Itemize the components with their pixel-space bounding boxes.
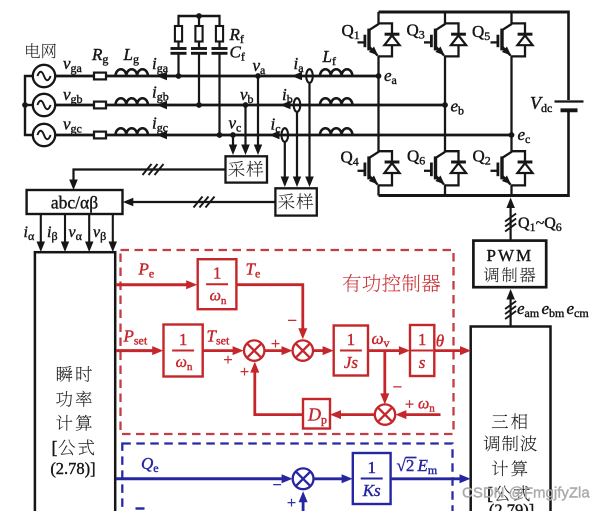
label T_set bbox=[207, 327, 230, 348]
label Q_e bbox=[141, 454, 159, 475]
svg-text:√2: √2 bbox=[397, 456, 415, 475]
resistor Rg (phase b) bbox=[94, 102, 106, 109]
current arrow i_gc bbox=[157, 131, 168, 139]
bus hatch on current signal bbox=[194, 197, 215, 208]
label e_a bbox=[384, 66, 398, 87]
current arrow i_c bbox=[269, 131, 280, 139]
summing junction 1 bbox=[244, 340, 264, 360]
current arrow i_ga bbox=[157, 72, 168, 80]
wire junction 4 to 1/Ks bbox=[314, 474, 353, 483]
capacitor Cf branch a bbox=[171, 49, 187, 77]
label Q2 bbox=[473, 147, 491, 168]
label sqrt2 E_m bbox=[397, 456, 438, 477]
svg-text:1: 1 bbox=[367, 458, 376, 477]
wire omega_n input bbox=[395, 410, 440, 419]
wire junction 4 feedback from below bbox=[299, 491, 308, 511]
transistor Q2 (IGBT) bbox=[491, 151, 533, 185]
block 1/s bbox=[410, 325, 434, 376]
label i_b bbox=[282, 85, 293, 106]
wire: leg a lower connections bbox=[377, 76, 379, 196]
svg-text:−: − bbox=[272, 477, 281, 494]
label Lg bbox=[123, 45, 139, 66]
wire: DC positive rail bbox=[379, 11, 569, 14]
node: filter branch b to phase bbox=[196, 102, 202, 108]
label omega_v bbox=[372, 329, 390, 350]
sign plus (T_set into junction 1) bbox=[223, 352, 232, 369]
resistor Rf branch c bbox=[216, 15, 223, 48]
svg-text:CSDN @FmgjfyZla: CSDN @FmgjfyZla bbox=[462, 485, 590, 502]
block: voltage sampler 采样 bbox=[226, 156, 268, 182]
bus hatch on gate signals bbox=[505, 214, 516, 232]
block: PWM modulator PWM调制器 bbox=[473, 241, 546, 288]
transistor Q1 (IGBT) bbox=[358, 23, 400, 56]
wire phase a bbox=[55, 75, 378, 78]
wire: v_beta output arrow bbox=[109, 214, 118, 252]
node e_a bbox=[376, 73, 382, 79]
wire theta output to modulation block bbox=[434, 346, 471, 355]
svg-text:1: 1 bbox=[213, 264, 222, 283]
wire: current sampler output to abc/alphabeta bbox=[123, 198, 276, 206]
svg-text:Ks: Ks bbox=[362, 481, 381, 500]
svg-text:−: − bbox=[393, 378, 403, 397]
block: three-phase modulation wave calculation 三相调制波计算 bbox=[471, 327, 551, 511]
block: instantaneous power calculation 瞬时功率计算 bbox=[35, 252, 115, 511]
node v_a and tap to sampler bbox=[254, 73, 262, 155]
inductor Lg (phase a) bbox=[116, 69, 148, 76]
inductor Lf (phase c) bbox=[320, 128, 352, 135]
sign minus (omega_v into junction 3) bbox=[393, 378, 403, 397]
label Q1 bbox=[342, 21, 360, 42]
node: filter branch a to phase bbox=[176, 73, 182, 79]
svg-text:(2.78)]: (2.78)] bbox=[50, 459, 95, 478]
label i_gb bbox=[152, 83, 169, 104]
wire: leg b lower connections bbox=[444, 105, 446, 196]
label v_c bbox=[229, 114, 242, 135]
wire D_p feedback to junction 1 bbox=[250, 362, 303, 415]
label Rg bbox=[91, 45, 108, 66]
battery Vdc plates bbox=[555, 102, 584, 111]
partial element below (cut off at bottom edge) bbox=[136, 507, 145, 509]
label Q4 bbox=[341, 148, 359, 169]
wire T_e to summing junction bbox=[236, 285, 307, 340]
label Cf bbox=[230, 43, 245, 64]
label i_c bbox=[271, 115, 281, 136]
resistor Rg (phase a) bbox=[94, 73, 106, 80]
wire: RC filter top bus bbox=[179, 15, 220, 17]
sign plus (junction1 to junction2) bbox=[271, 336, 280, 353]
wire T_set to summing junction 1 bbox=[203, 346, 244, 355]
wire P_e from power block bbox=[116, 280, 197, 289]
node: filter branch c to phase bbox=[217, 132, 223, 138]
wire: voltage sampler output to abc/alphabeta bbox=[69, 170, 225, 191]
bus hatch on voltage signal bbox=[143, 164, 164, 175]
label i_gc bbox=[152, 114, 168, 135]
current arrow i_b bbox=[280, 101, 291, 109]
transistor Q3 (IGBT) bbox=[424, 23, 466, 56]
label v_a bbox=[253, 56, 267, 77]
label v_gb bbox=[63, 85, 83, 106]
wire phase b bbox=[55, 104, 445, 107]
inductor Lg (phase b) bbox=[116, 98, 148, 105]
svg-text:θ: θ bbox=[436, 332, 444, 351]
AC source phase c (v_gc) bbox=[33, 124, 55, 146]
inductor Lg (phase c) bbox=[116, 128, 148, 135]
wire: left bus connecting AC sources bbox=[25, 76, 33, 135]
current arrow i_a bbox=[292, 72, 303, 80]
wire junction3 to D_p bbox=[330, 410, 375, 419]
block 1/omega_n (P_e to T_e) bbox=[198, 259, 237, 309]
wire: leg c upper connections bbox=[510, 12, 512, 135]
svg-text:1: 1 bbox=[347, 330, 356, 349]
dashed box: reactive power controller bbox=[122, 444, 452, 511]
block: current sampler 采样 bbox=[275, 188, 316, 215]
node e_c bbox=[509, 132, 515, 138]
svg-text:Q1~Q6: Q1~Q6 bbox=[518, 215, 562, 234]
wire: v_alpha output arrow bbox=[85, 214, 94, 252]
block D_p bbox=[303, 399, 330, 429]
label Q6 bbox=[407, 147, 425, 168]
label i_beta bbox=[47, 224, 58, 243]
transistor Q5 (IGBT) bbox=[491, 23, 533, 56]
block 1/Js bbox=[334, 326, 368, 376]
node e_b bbox=[442, 102, 448, 108]
wire: leg a upper connections bbox=[377, 12, 379, 76]
svg-text:−: − bbox=[287, 311, 297, 330]
summing junction 2 bbox=[293, 340, 313, 360]
label e_c bbox=[518, 125, 531, 146]
svg-text:+: + bbox=[223, 352, 232, 369]
label e_b bbox=[451, 97, 465, 118]
label i_ga bbox=[152, 54, 169, 75]
label T_e bbox=[246, 260, 261, 281]
wire: DC right bus bbox=[567, 11, 570, 198]
label i_a bbox=[294, 54, 305, 75]
wire E_m output to modulation block bbox=[391, 474, 471, 483]
sign minus (Q_e into junction 4) bbox=[272, 477, 281, 494]
svg-text:+: + bbox=[240, 364, 249, 381]
resistor Rg (phase c) bbox=[94, 132, 106, 139]
sign minus (T_e into junction) bbox=[287, 311, 297, 330]
transistor Q6 (IGBT) bbox=[424, 151, 466, 185]
current transformer on phase b bbox=[293, 98, 301, 187]
label P_e bbox=[138, 260, 155, 281]
watermark CSDN bbox=[462, 485, 590, 502]
node v_c and tap to sampler bbox=[229, 132, 237, 155]
wire 1/Js to 1/s with branch bbox=[368, 346, 410, 355]
svg-text:+: + bbox=[405, 397, 414, 414]
svg-text:Js: Js bbox=[344, 353, 359, 372]
svg-text:+: + bbox=[287, 495, 296, 511]
label Q3 bbox=[407, 21, 425, 42]
wire: leg b upper connections bbox=[444, 12, 446, 105]
label v_beta bbox=[93, 224, 106, 243]
svg-text:PWM: PWM bbox=[486, 246, 533, 265]
node v_b and tap to sampler bbox=[241, 102, 250, 155]
resistor Rf branch a bbox=[175, 15, 182, 48]
wire: leg c lower connections bbox=[510, 135, 512, 196]
svg-text:(2.79)]: (2.79)] bbox=[489, 501, 534, 511]
transistor Q4 (IGBT) bbox=[358, 151, 400, 185]
sign plus (into junction 4 from below) bbox=[287, 495, 296, 511]
wire: i_alpha output arrow bbox=[37, 214, 46, 252]
AC source phase b (v_gb) bbox=[33, 94, 55, 116]
label Q1~Q6 bbox=[518, 215, 562, 234]
label Vdc bbox=[530, 93, 552, 115]
capacitor Cf branch b bbox=[191, 49, 207, 106]
resistor Rf branch b bbox=[195, 15, 202, 48]
wire: DC negative rail bbox=[379, 194, 569, 197]
current transformer on phase c bbox=[281, 128, 290, 187]
wire Q_e input bbox=[116, 474, 293, 483]
label Rf bbox=[229, 25, 244, 46]
label Lf bbox=[322, 47, 336, 68]
block 1/Ks bbox=[353, 453, 391, 504]
inductor Lf (phase a) bbox=[320, 69, 352, 76]
label v_alpha bbox=[69, 224, 83, 243]
wire junction1 to junction2 bbox=[264, 346, 292, 355]
current arrow i_gb bbox=[157, 101, 168, 109]
block: abc/alphabeta transform bbox=[27, 190, 123, 214]
wire P_set input bbox=[116, 346, 163, 355]
label theta bbox=[436, 332, 444, 351]
wire: i_beta output arrow bbox=[61, 214, 69, 252]
capacitor Cf branch c bbox=[212, 49, 228, 136]
wire: modulation waves to PWM bbox=[506, 289, 515, 327]
block 1/omega_n (P_set to T_set) bbox=[164, 325, 203, 377]
bus hatch on modulation waves bbox=[505, 301, 516, 319]
wire phase c bbox=[55, 134, 511, 137]
sign plus (feedback into junction 1) bbox=[240, 364, 249, 381]
summing junction 3 bbox=[375, 404, 395, 424]
AC source phase a (v_ga) bbox=[33, 65, 55, 87]
wire: gate signals PWM to bridge bbox=[506, 198, 515, 241]
node: left bus junction bbox=[22, 102, 28, 108]
label 有功控制器 bbox=[343, 274, 440, 292]
current transformer on phase a bbox=[305, 69, 314, 187]
svg-text:1: 1 bbox=[418, 330, 427, 349]
svg-text:abc/αβ: abc/αβ bbox=[51, 193, 98, 213]
label e_am e_bm e_cm bbox=[517, 299, 589, 320]
grid label 电网 bbox=[26, 43, 56, 58]
sign plus (omega_n into junction 3) bbox=[405, 397, 414, 414]
svg-text:1: 1 bbox=[179, 330, 188, 349]
label i_alpha bbox=[24, 224, 35, 243]
svg-text:[: [ bbox=[52, 438, 58, 458]
label omega_n (reference) bbox=[418, 396, 435, 415]
label v_gc bbox=[63, 115, 82, 136]
node: filter top bus junction bbox=[196, 13, 202, 19]
inductor Lf (phase b) bbox=[320, 98, 352, 105]
label v_b bbox=[240, 85, 254, 106]
label Q5 bbox=[472, 22, 490, 43]
label P_set bbox=[123, 327, 148, 348]
wire junction2 to 1/Js bbox=[313, 346, 334, 355]
wire omega_v feedback down bbox=[380, 351, 389, 405]
summing junction 4 bbox=[293, 468, 314, 489]
svg-text:s: s bbox=[419, 353, 426, 372]
dashed box: active power controller bbox=[121, 250, 454, 434]
label v_ga bbox=[63, 54, 83, 75]
